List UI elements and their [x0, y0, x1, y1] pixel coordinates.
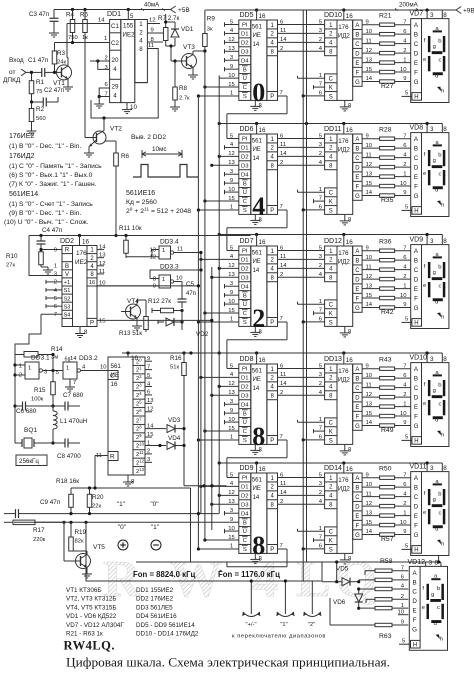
svg-text:2: 2 — [401, 594, 404, 600]
svg-text:C: C — [414, 155, 419, 162]
svg-text:11: 11 — [280, 254, 286, 260]
svg-text:1: 1 — [401, 603, 404, 609]
svg-text:H: H — [414, 321, 418, 327]
svg-text:14: 14 — [253, 386, 260, 392]
svg-text:14: 14 — [70, 356, 77, 362]
svg-text:10: 10 — [400, 520, 407, 526]
svg-text:R27: R27 — [381, 83, 394, 90]
svg-text:R11 10к: R11 10к — [119, 225, 142, 232]
svg-text:1: 1 — [19, 364, 22, 370]
svg-text:h: h — [441, 203, 444, 209]
svg-text:D: D — [414, 503, 419, 510]
svg-text:C1: C1 — [111, 23, 119, 30]
svg-text:15: 15 — [147, 432, 153, 438]
wire oscillator frame — [13, 353, 54, 443]
svg-text:DD6: DD6 — [240, 126, 254, 133]
wire +5V rail — [54, 2, 190, 15]
counter IC DD8 561ИЕ14 — [239, 353, 278, 454]
svg-text:d: d — [435, 73, 438, 79]
wire rail chain bus — [218, 75, 220, 513]
svg-text:P: P — [270, 438, 274, 444]
resistor R20 22к — [87, 488, 104, 514]
title RW4LQ — [64, 639, 116, 653]
svg-text:R57: R57 — [381, 536, 394, 543]
svg-text:C: C — [329, 191, 334, 197]
svg-text:16: 16 — [82, 239, 90, 246]
svg-text:1: 1 — [319, 73, 322, 79]
svg-text:G: G — [414, 79, 419, 86]
svg-text:B: B — [65, 264, 69, 270]
svg-text:1: 1 — [104, 36, 107, 42]
svg-text:DD2 176ИЕ2: DD2 176ИЕ2 — [136, 596, 174, 603]
svg-text:20: 20 — [112, 57, 119, 64]
svg-text:ИД2: ИД2 — [338, 32, 351, 39]
svg-text:1: 1 — [54, 264, 57, 270]
LED display VD12 — [409, 566, 447, 650]
svg-text:V: V — [65, 272, 69, 278]
svg-text:b: b — [438, 382, 441, 388]
svg-text:176: 176 — [338, 477, 349, 484]
svg-text:d: d — [435, 187, 438, 193]
svg-text:155: 155 — [123, 23, 134, 30]
svg-text:DD2: DD2 — [60, 238, 74, 245]
input terminal from ДПКД — [3, 57, 37, 84]
LED display VD11 — [411, 472, 449, 556]
svg-text:7: 7 — [280, 316, 283, 322]
svg-text:10мс: 10мс — [152, 146, 166, 153]
counter IC DD6 561ИЕ14 — [239, 124, 278, 225]
svg-text:D4: D4 — [241, 172, 249, 178]
wire aux bus x201 — [200, 253, 202, 514]
svg-text:VD12: VD12 — [408, 559, 426, 566]
svg-text:100к: 100к — [31, 397, 44, 403]
svg-text:h: h — [440, 636, 443, 642]
capacitor C7 680 — [53, 392, 84, 411]
svg-text:R58: R58 — [380, 558, 393, 565]
svg-text:K: K — [329, 538, 333, 544]
svg-text:d: d — [435, 417, 438, 423]
svg-text:2: 2 — [403, 274, 406, 280]
svg-text:8: 8 — [443, 356, 447, 363]
svg-text:12: 12 — [149, 18, 156, 24]
svg-text:R13 51к: R13 51к — [119, 330, 142, 337]
svg-text:B: B — [355, 146, 359, 152]
resistor R11 10к — [119, 225, 142, 258]
svg-text:1: 1 — [403, 283, 406, 289]
wire C4 to DD2 R pin — [39, 248, 62, 251]
annotation 561ИЕ14 notes — [4, 191, 93, 226]
svg-text:e: e — [423, 510, 426, 516]
logic gate DD3.2 — [56, 355, 110, 391]
svg-text:PI: PI — [242, 367, 248, 373]
svg-text:4: 4 — [113, 66, 117, 73]
svg-text:E: E — [414, 513, 418, 520]
svg-text:1: 1 — [28, 366, 31, 372]
svg-text:22к: 22к — [92, 504, 101, 510]
svg-text:S: S — [243, 320, 247, 326]
svg-text:16: 16 — [346, 127, 354, 134]
svg-text:1: 1 — [403, 510, 406, 516]
svg-text:S: S — [243, 438, 247, 444]
svg-text:51к: 51к — [170, 365, 179, 371]
svg-text:10: 10 — [100, 365, 107, 371]
svg-text:10: 10 — [366, 482, 373, 488]
svg-text:C2: C2 — [111, 40, 119, 47]
svg-text:9: 9 — [54, 248, 57, 254]
svg-text:10: 10 — [366, 255, 373, 261]
svg-text:9: 9 — [366, 19, 369, 25]
svg-text:S: S — [329, 208, 333, 214]
svg-text:S4: S4 — [64, 313, 71, 319]
svg-text:9: 9 — [366, 363, 369, 369]
wire DD1 outputs — [91, 18, 163, 118]
parts list table — [66, 587, 199, 638]
svg-text:15: 15 — [366, 520, 373, 526]
svg-text:176: 176 — [338, 24, 349, 31]
svg-text:9: 9 — [366, 472, 369, 478]
svg-text:DD1: DD1 — [107, 11, 121, 18]
svg-text:R49: R49 — [381, 427, 394, 434]
svg-text:13: 13 — [366, 171, 373, 177]
svg-text:14: 14 — [253, 42, 260, 48]
svg-text:3к: 3к — [207, 27, 213, 33]
svg-text:L1 470uH: L1 470uH — [60, 418, 88, 425]
svg-text:P: P — [270, 94, 274, 100]
svg-text:"1": "1" — [280, 622, 287, 628]
svg-text:2: 2 — [280, 390, 283, 396]
svg-text:ИД2: ИД2 — [338, 146, 351, 153]
svg-text:VD9: VD9 — [410, 237, 424, 244]
svg-text:2: 2 — [403, 501, 406, 507]
svg-text:D2: D2 — [241, 154, 249, 160]
svg-text:R19: R19 — [75, 529, 87, 536]
svg-text:7: 7 — [280, 434, 283, 440]
svg-text:S: S — [329, 320, 333, 326]
svg-text:D: D — [355, 277, 360, 283]
svg-text:1: 1 — [162, 248, 165, 254]
svg-text:560: 560 — [36, 116, 46, 122]
svg-text:ИЕ2: ИЕ2 — [123, 32, 136, 39]
svg-text:e: e — [423, 171, 426, 177]
svg-text:R4: R4 — [66, 12, 75, 19]
svg-text:+1: +1 — [64, 280, 70, 286]
svg-text:2: 2 — [319, 151, 322, 157]
svg-text:1: 1 — [319, 299, 322, 305]
svg-text:B: B — [243, 67, 247, 73]
svg-text:14: 14 — [280, 37, 287, 43]
svg-text:D4: D4 — [241, 402, 249, 408]
svg-text:47п: 47п — [186, 291, 196, 297]
svg-text:R6: R6 — [121, 153, 130, 160]
svg-text:R50: R50 — [379, 466, 392, 473]
wire C chain bus — [204, 47, 206, 541]
svg-text:C9 47п: C9 47п — [40, 499, 60, 506]
wire input stubs DD9 — [197, 472, 239, 550]
wire S chain bus — [197, 96, 199, 549]
svg-text:2: 2 — [319, 381, 322, 387]
svg-text:A: A — [355, 367, 359, 373]
diode VD2 — [158, 311, 209, 339]
resistor R14 3м — [24, 346, 63, 361]
LED display VD7 — [411, 19, 449, 103]
svg-text:R8: R8 — [179, 85, 188, 92]
svg-text:D3: D3 — [241, 502, 249, 508]
svg-text:256кГц: 256кГц — [19, 458, 39, 465]
svg-text:R21 - R63 1к: R21 - R63 1к — [66, 631, 103, 638]
svg-text:F̄on = 1176.0 кГц: F̄on = 1176.0 кГц — [218, 570, 280, 579]
svg-text:g: g — [433, 388, 436, 394]
wire DD4 R input — [95, 452, 118, 489]
svg-text:C: C — [414, 267, 419, 274]
svg-text:1: 1 — [319, 526, 322, 532]
decoder IC DD14 176ИД2 — [324, 463, 362, 564]
svg-text:7: 7 — [319, 426, 322, 432]
svg-text:Вход: Вход — [9, 57, 24, 64]
wire vertical supply bus B — [306, 10, 308, 562]
svg-text:K: K — [329, 85, 333, 91]
svg-text:12: 12 — [366, 48, 373, 54]
capacitor C2 47п — [30, 87, 64, 107]
svg-text:14: 14 — [366, 420, 373, 426]
svg-text:C8 4700: C8 4700 — [57, 453, 81, 460]
svg-text:2: 2 — [319, 263, 322, 269]
svg-text:8: 8 — [443, 126, 447, 133]
svg-text:1: 1 — [319, 187, 322, 193]
logic gate DD3.4 — [149, 239, 202, 261]
svg-text:ИЕ: ИЕ — [253, 486, 261, 492]
svg-text:14: 14 — [280, 151, 287, 157]
svg-text:ИД2: ИД2 — [338, 258, 351, 265]
svg-text:S: S — [243, 94, 247, 100]
svg-text:VD5: VD5 — [336, 566, 349, 573]
svg-text:750: 750 — [68, 35, 78, 41]
svg-text:D: D — [414, 164, 419, 171]
svg-text:16: 16 — [259, 239, 267, 246]
wire vertical supply bus A — [302, 10, 304, 582]
svg-text:11: 11 — [366, 152, 372, 158]
resistor network R28-R35 1k — [362, 127, 411, 204]
svg-text:7: 7 — [73, 380, 76, 386]
svg-text:S: S — [243, 547, 247, 553]
wire node row bottom — [14, 512, 239, 524]
svg-text:R2: R2 — [36, 106, 45, 113]
svg-text:561ИЕ14: 561ИЕ14 — [9, 191, 38, 198]
svg-text:R63: R63 — [379, 633, 392, 640]
svg-text:16: 16 — [259, 13, 267, 20]
svg-text:2: 2 — [280, 46, 283, 52]
svg-text:F: F — [414, 522, 418, 529]
svg-text:14: 14 — [253, 156, 260, 162]
svg-text:14: 14 — [98, 18, 105, 24]
svg-text:D: D — [412, 598, 417, 605]
svg-text:(9) В "0" - Dec. "1" - Bin: (9) В "0" - Dec. "1" - Bin. — [9, 210, 81, 217]
svg-text:F: F — [356, 296, 360, 302]
svg-text:С2 47п: С2 47п — [44, 87, 64, 94]
svg-text:D1: D1 — [241, 258, 249, 264]
svg-text:14: 14 — [280, 263, 287, 269]
svg-text:14: 14 — [280, 381, 287, 387]
svg-text:H: H — [414, 95, 418, 101]
svg-text:2: 2 — [403, 162, 406, 168]
svg-text:D2: D2 — [241, 384, 249, 390]
svg-text:1: 1 — [403, 401, 406, 407]
svg-text:C: C — [243, 199, 248, 205]
wire DD1 R0 pins 2 3 — [90, 56, 110, 72]
svg-text:D1: D1 — [241, 32, 249, 38]
svg-text:9: 9 — [403, 420, 406, 426]
svg-text:F: F — [414, 183, 418, 190]
resistor R10 27к — [6, 250, 53, 275]
svg-text:PI: PI — [242, 476, 248, 482]
svg-text:F: F — [414, 413, 418, 420]
svg-text:P: P — [270, 320, 274, 326]
svg-text:h: h — [441, 433, 444, 439]
svg-text:(1) S "0" - Счет "1" - Зап: (1) S "0" - Счет "1" - Запись — [9, 201, 93, 208]
svg-text:R28: R28 — [379, 127, 392, 134]
svg-text:B: B — [414, 484, 418, 491]
svg-text:B: B — [243, 411, 247, 417]
svg-text:PI: PI — [242, 137, 248, 143]
svg-text:176ИД2: 176ИД2 — [9, 153, 34, 160]
wire DD4 C input — [108, 371, 118, 380]
svg-text:"2": "2" — [308, 622, 315, 628]
svg-text:C: C — [329, 530, 334, 536]
svg-text:DD4 561ИЕ16: DD4 561ИЕ16 — [136, 613, 177, 620]
resistor R8 2.7к — [170, 59, 190, 111]
svg-text:7: 7 — [319, 196, 322, 202]
svg-text:11: 11 — [366, 382, 372, 388]
svg-text:2: 2 — [319, 37, 322, 43]
svg-text:(1) С "0" - Память "1" - Запис: (1) С "0" - Память "1" - Запись — [9, 163, 102, 170]
svg-text:D1: D1 — [241, 376, 249, 382]
svg-text:от: от — [9, 69, 15, 76]
svg-text:"0": "0" — [118, 524, 127, 531]
svg-text:13: 13 — [366, 57, 373, 63]
svg-text:G: G — [412, 627, 417, 634]
svg-text:9: 9 — [366, 245, 369, 251]
svg-text:B: B — [243, 520, 247, 526]
svg-text:K: K — [329, 311, 333, 317]
svg-text:H: H — [414, 439, 418, 445]
svg-text:C: C — [412, 589, 417, 596]
svg-text:3: 3 — [430, 126, 434, 133]
svg-text:D2: D2 — [241, 493, 249, 499]
svg-text:d: d — [435, 299, 438, 305]
svg-text:(10) U "0" - Выч. "1" - Сло: (10) U "0" - Выч. "1" - Слож. — [4, 219, 89, 226]
resistor R16 51к — [170, 353, 186, 446]
svg-text:VD11: VD11 — [410, 464, 427, 471]
svg-text:L: L — [296, 551, 331, 608]
svg-text:G: G — [414, 532, 419, 539]
svg-text:12: 12 — [366, 162, 373, 168]
svg-text:E: E — [414, 60, 418, 67]
wire control stubs DD12 — [298, 299, 325, 324]
wire control stubs DD10 — [298, 73, 325, 98]
svg-text:D: D — [414, 394, 419, 401]
svg-text:VT1: VT1 — [53, 80, 65, 87]
svg-text:PI: PI — [242, 249, 248, 255]
svg-text:b: b — [438, 152, 441, 158]
svg-text:7: 7 — [54, 312, 57, 318]
svg-text:9: 9 — [147, 356, 150, 362]
label logic levels row1 — [117, 501, 159, 508]
svg-text:d: d — [434, 621, 437, 627]
svg-text:2: 2 — [147, 449, 150, 455]
wire DD8-DD13 BCD bus — [278, 363, 325, 396]
IC DD2 176ИЕ2 — [60, 236, 97, 338]
svg-text:ИД2: ИД2 — [338, 485, 351, 492]
svg-text:U: U — [243, 420, 247, 426]
svg-text:D: D — [355, 51, 360, 57]
svg-text:82к: 82к — [75, 539, 84, 545]
svg-text:14: 14 — [366, 76, 373, 82]
capacitor C8 4700 — [53, 439, 81, 461]
svg-text:8: 8 — [443, 12, 447, 19]
svg-text:4: 4 — [113, 93, 117, 100]
svg-text:R10: R10 — [6, 253, 18, 260]
label Fon frequencies — [133, 570, 280, 579]
svg-text:561: 561 — [252, 251, 263, 257]
svg-text:b: b — [438, 264, 441, 270]
svg-text:c: c — [438, 171, 441, 177]
svg-text:C4 47п: C4 47п — [42, 227, 62, 234]
svg-text:176: 176 — [338, 250, 349, 257]
svg-text:P: P — [90, 321, 94, 327]
resistor R6 — [105, 141, 130, 237]
svg-text:H: H — [414, 209, 418, 215]
svg-text:C: C — [355, 156, 360, 162]
svg-text:10: 10 — [366, 143, 373, 149]
svg-text:7: 7 — [401, 565, 404, 571]
svg-text:B: B — [414, 145, 418, 152]
svg-text:S: S — [243, 208, 247, 214]
svg-text:h: h — [441, 542, 444, 548]
svg-text:DD3 561ЛЕ5: DD3 561ЛЕ5 — [136, 604, 173, 611]
svg-text:29: 29 — [112, 84, 119, 91]
wire H pin stub VD12 — [399, 638, 411, 644]
svg-text:RW4LQ.: RW4LQ. — [64, 639, 116, 653]
svg-text:H: H — [414, 548, 418, 554]
svg-text:7: 7 — [319, 308, 322, 314]
svg-text:B: B — [243, 293, 247, 299]
label 256кГц box — [16, 455, 47, 466]
svg-text:10: 10 — [400, 67, 407, 73]
svg-text:29 + 211 = 512 + 2048: 29 + 211 = 512 + 2048 — [126, 207, 191, 216]
svg-text:ИЕ2: ИЕ2 — [75, 259, 88, 266]
svg-text:7: 7 — [403, 19, 406, 25]
svg-text:F: F — [356, 70, 360, 76]
svg-text:Кд = 2560: Кд = 2560 — [126, 199, 157, 206]
svg-text:R12 27к: R12 27к — [148, 298, 171, 305]
svg-text:VT4, VT5 КТ315Б: VT4, VT5 КТ315Б — [66, 604, 117, 611]
svg-text:h: h — [441, 89, 444, 95]
svg-text:10: 10 — [400, 293, 407, 299]
svg-text:G: G — [414, 193, 419, 200]
svg-text:D: D — [355, 165, 360, 171]
resistor R3 24к — [52, 43, 66, 73]
svg-text:h: h — [441, 315, 444, 321]
svg-text:3: 3 — [430, 238, 434, 245]
svg-text:DD11: DD11 — [324, 126, 341, 133]
svg-text:9: 9 — [403, 76, 406, 82]
svg-text:b: b — [438, 491, 441, 497]
svg-text:E: E — [355, 514, 359, 520]
diode VD6 — [333, 587, 363, 609]
svg-text:F: F — [413, 617, 417, 624]
svg-text:A: A — [355, 249, 359, 255]
counter IC DD7 561ИЕ14 — [239, 235, 278, 337]
svg-text:3: 3 — [430, 12, 434, 19]
